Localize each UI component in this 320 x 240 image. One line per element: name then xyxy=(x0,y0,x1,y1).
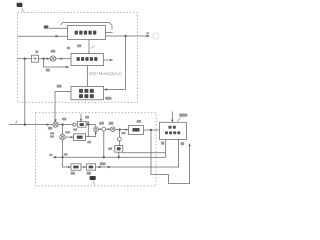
svg-text:M(t)+M0sin(2pfmt): M(t)+M0sin(2pfmt) xyxy=(89,71,122,76)
node t1 label xyxy=(161,142,164,145)
junction on lineB xyxy=(98,166,100,168)
wire U1 bottom to U2 xyxy=(88,40,90,54)
wire U2 right stub xyxy=(104,59,113,61)
node 10b label xyxy=(99,122,104,125)
node 1b label xyxy=(49,154,52,156)
node 12b label above B5 xyxy=(137,120,142,123)
wire lineB to box U4 xyxy=(96,140,179,167)
wire box B out up into T1 xyxy=(86,132,96,137)
mixer T2 xyxy=(111,127,116,132)
arrowhead into mixer M1b xyxy=(54,119,56,122)
wire box A out along row xyxy=(86,124,96,126)
node 2a (label on input stub) xyxy=(44,25,49,28)
node 9a label xyxy=(57,85,62,88)
wire B5 to U4 xyxy=(144,129,160,131)
wire chain input row upper xyxy=(18,58,32,60)
wire long left vertical to bottom unit xyxy=(24,59,26,125)
junction on B5 output xyxy=(150,129,152,131)
node 12a label xyxy=(62,118,66,121)
text blobs U3 two rows xyxy=(79,89,94,98)
wire loop from junction down and around to U4 right-bottom xyxy=(151,130,190,184)
node 15c label right of junction column xyxy=(122,132,126,134)
arrowhead into U3 right xyxy=(104,88,107,90)
junction after box A xyxy=(87,123,89,125)
wire between S1 and mixer M1t xyxy=(39,58,51,60)
block A (small box on row1) xyxy=(78,122,87,128)
wire leader from label 10 to border xyxy=(22,8,24,13)
node t2 label xyxy=(181,142,184,145)
wire x input xyxy=(9,124,53,126)
block U2 (middle box) xyxy=(71,54,104,66)
arrowhead left end lineA xyxy=(53,156,56,159)
arrowhead on input line xyxy=(56,35,60,38)
wire U1 main output xyxy=(106,35,150,37)
mixer M1t (circle with X) xyxy=(50,56,55,61)
wire U1 output stub upper xyxy=(106,31,113,33)
node small circle N1 xyxy=(102,127,106,131)
junction x input xyxy=(24,123,26,125)
block U4 (photodetector box right) xyxy=(160,122,187,139)
wire input line into U1 xyxy=(18,35,68,37)
block U3 (lower box of upper unit) xyxy=(71,86,104,99)
node 6 label xyxy=(35,50,38,53)
node 15a label under N0 xyxy=(73,128,77,130)
wire U4 bottom port1 to lineA xyxy=(165,140,167,158)
junction lineA at 62.6 xyxy=(61,156,63,158)
wire vertical 62.6 down to mixer M4 xyxy=(62,125,64,135)
wire T1 to N1 xyxy=(98,128,102,130)
block B xyxy=(74,134,86,141)
node 20 label xyxy=(90,176,96,180)
node 19b label xyxy=(100,162,106,165)
dashed enclosure upper unit xyxy=(18,13,138,103)
node 3 label left of U2 xyxy=(67,47,70,50)
wire mixer to U2 xyxy=(56,58,71,60)
arrowhead branch xyxy=(66,66,69,68)
wire M4 to box B xyxy=(65,136,73,138)
node 11b label xyxy=(109,122,114,125)
node 17b label xyxy=(71,172,75,175)
junction 62.6 on row xyxy=(61,123,63,125)
node 8a leader tick xyxy=(91,46,94,49)
node 7a label xyxy=(51,50,56,53)
junction lineA at 118.8 xyxy=(118,156,120,158)
mixer T1 xyxy=(94,127,99,132)
node 14a label xyxy=(105,97,111,100)
node 16b label rows left of M4 xyxy=(50,132,54,134)
junction lineA at 103.8 xyxy=(103,156,105,158)
arrowhead into B5 xyxy=(125,129,128,131)
text blobs U2 xyxy=(77,57,98,61)
wire N1 to T2 xyxy=(106,128,111,130)
node 10c label xyxy=(64,153,68,155)
wire T2 to block B5 xyxy=(115,128,128,130)
wire branch down from junction 43.5 xyxy=(44,59,70,67)
wire N1 down to lineA xyxy=(103,131,105,157)
node 18b label xyxy=(87,172,91,175)
junction after S1 xyxy=(42,58,44,60)
node 14b label under wire xyxy=(87,141,91,144)
node 14c label left of block C xyxy=(108,147,112,150)
node small circle N0 xyxy=(73,123,76,126)
wire input stub to U1 upper xyxy=(49,27,68,29)
block C xyxy=(115,146,123,153)
block B5 (right small box in lower unit) xyxy=(129,126,144,135)
wire leader 20 to border xyxy=(93,180,95,185)
wire mixer M1b to circle N0 xyxy=(58,124,73,126)
terminal circle output xyxy=(153,33,159,39)
wire branch down from 88.3 xyxy=(87,125,89,137)
wire feedback vertical right xyxy=(104,36,126,90)
dashed enclosure lower unit 20 xyxy=(36,113,157,186)
wire U3 left port down to mixer M1b xyxy=(55,92,71,122)
node 10 (figure reference label top-left) xyxy=(17,3,23,7)
wire N2 to block C xyxy=(118,141,120,146)
wire vertical from junction 119.6 down xyxy=(118,130,120,138)
arrowhead loop end up xyxy=(188,143,190,146)
node 100 label xyxy=(179,114,187,117)
node 5a label xyxy=(46,69,50,72)
wire vertical M4 down to lineA xyxy=(62,140,64,157)
junction on U1 output xyxy=(124,35,126,37)
wire leader hook above U1 xyxy=(61,23,113,30)
junction right of T2 xyxy=(118,128,120,130)
node small circle N2 xyxy=(118,137,122,141)
node 15b label above right of M4 xyxy=(65,131,70,133)
mixer M4 xyxy=(60,134,65,139)
junction left chain xyxy=(24,58,26,60)
node 7 label under U1 xyxy=(77,44,81,47)
arrowhead on lineB xyxy=(108,166,111,168)
wire leader 100 to U4 corner xyxy=(177,118,181,123)
arrowhead U1 output xyxy=(147,35,151,38)
block E (second chain box) xyxy=(87,164,96,170)
node 9b label xyxy=(85,116,89,119)
block U1 (top generator box) xyxy=(68,26,106,40)
wire into box A top from border xyxy=(80,114,82,122)
wire D to E xyxy=(81,166,87,168)
arrowhead into U2 xyxy=(61,58,64,60)
mixer M1b xyxy=(53,122,58,127)
adder square S1 xyxy=(32,55,39,62)
wire into U4 top xyxy=(171,112,173,123)
block D (first chain box) xyxy=(71,164,81,170)
arrowhead into T2 xyxy=(108,128,111,130)
node 5b label xyxy=(87,121,90,123)
arrowhead before mixer M1b xyxy=(47,123,50,125)
wire lineA horizontal bus xyxy=(53,156,166,158)
wire down into mixer T1 top xyxy=(95,125,97,127)
wire 62.6 down to lineB chain xyxy=(63,157,71,167)
node 13a label xyxy=(48,127,52,130)
text blobs U1 xyxy=(75,31,97,35)
wire block C down to lineA xyxy=(118,152,120,157)
arrowhead before mixer xyxy=(47,58,50,60)
wire U2 bottom to U3 xyxy=(87,66,89,87)
wire block C side line to right xyxy=(123,152,166,154)
